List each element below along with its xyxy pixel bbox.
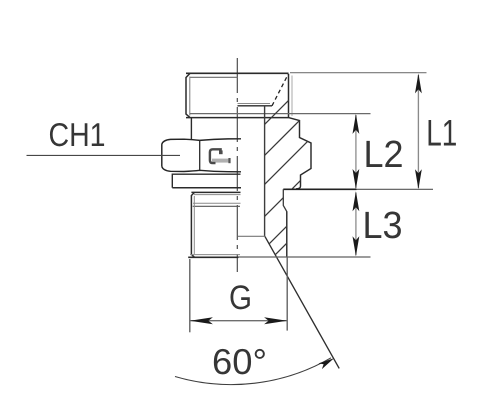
svg-text:L3: L3 xyxy=(363,205,403,247)
svg-text:CH1: CH1 xyxy=(49,116,106,153)
top stud left root thin xyxy=(189,77,191,116)
thread runout line thin (L2 extension) xyxy=(190,113,371,115)
bore shoulder line xyxy=(238,105,273,107)
lower stud right wall section xyxy=(283,189,287,257)
G dimension line xyxy=(190,320,287,322)
L2 arrow down xyxy=(353,169,360,189)
section right profile xyxy=(289,118,312,189)
lower stud chamfer thin xyxy=(194,194,241,196)
bore wall xyxy=(264,106,266,237)
logo on hex xyxy=(210,149,231,163)
top stud chamfer edge line xyxy=(190,76,238,78)
G arrow right xyxy=(264,317,287,324)
L3 arrow down xyxy=(353,236,360,256)
arc arrowhead xyxy=(319,358,335,369)
flange bottom left xyxy=(172,187,241,189)
L2 arrow up xyxy=(353,114,360,134)
L3 dimension line xyxy=(355,193,357,256)
hex outline left view xyxy=(162,139,241,172)
lower stud top face left xyxy=(191,191,240,193)
60 deg cone line xyxy=(265,237,339,369)
bore shoulder chamfer thin xyxy=(238,103,271,105)
lower stud right crest thick xyxy=(286,212,288,258)
svg-text:L2: L2 xyxy=(364,134,404,176)
svg-text:G: G xyxy=(229,279,252,317)
lower stud runout thin xyxy=(193,202,241,204)
G arrow left xyxy=(190,317,213,324)
neck left edge xyxy=(190,118,192,139)
lower stud left root thin xyxy=(193,196,195,254)
60 degree arc xyxy=(175,358,331,385)
cone start line xyxy=(238,235,266,237)
sealing face / L dimension shared extension line xyxy=(283,188,356,190)
L1 arrow up xyxy=(415,73,422,93)
top stud right crest xyxy=(288,74,290,118)
lower stud thread start xyxy=(193,205,240,207)
thread runout dashed diagonal xyxy=(272,74,288,106)
top stud shoulder xyxy=(186,117,289,119)
top stud right outer thin xyxy=(291,76,293,117)
hex face edge vertical xyxy=(199,140,201,170)
svg-text:L1: L1 xyxy=(426,113,457,154)
G right extension xyxy=(286,258,288,331)
G left extension xyxy=(189,259,191,332)
hatching xyxy=(244,69,345,259)
L3 arrow up xyxy=(353,191,360,211)
flange left view xyxy=(172,174,240,188)
L1 arrow down xyxy=(415,169,422,189)
lower stud bottom chamfer thin xyxy=(190,254,240,256)
L2 dimension line xyxy=(355,115,357,188)
bottom face extension (L3 bottom) xyxy=(239,256,371,258)
L1 top extension xyxy=(290,72,427,74)
lower stud left crest xyxy=(191,192,194,257)
top stud top face xyxy=(186,72,289,74)
centerline xyxy=(236,58,238,272)
L1 dimension line xyxy=(417,75,419,188)
svg-text:60°: 60° xyxy=(212,341,267,382)
bottom face xyxy=(188,256,238,258)
CH1 leader xyxy=(27,154,181,156)
top stud left crest xyxy=(186,73,190,117)
